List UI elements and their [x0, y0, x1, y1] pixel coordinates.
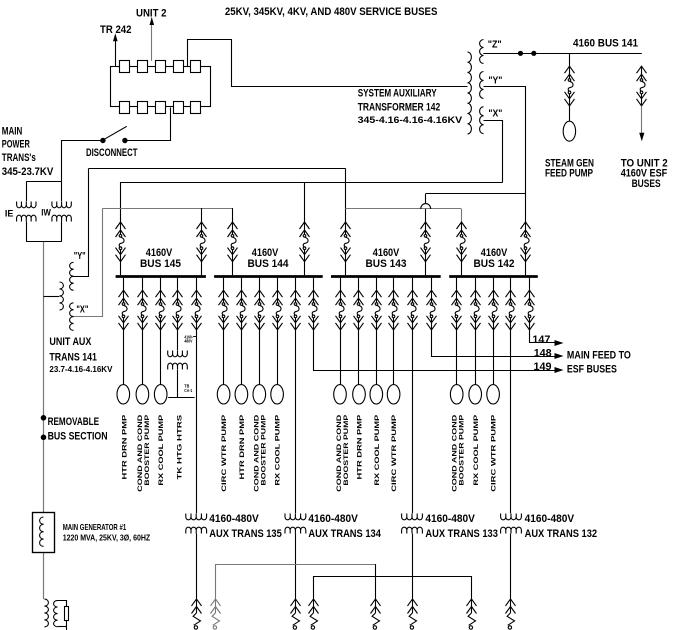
- svg-text:345-4.16-4.16-4.16KV: 345-4.16-4.16-4.16KV: [358, 115, 463, 125]
- wire breaker to bus at x=304.4: [304, 262, 306, 276]
- wire 142 X lead riser: [484, 121, 503, 183]
- svg-text:147: 147: [532, 334, 550, 346]
- svg-text:HTR DRN PMP: HTR DRN PMP: [122, 414, 129, 480]
- wire breaker to bus at x=232.8: [232, 262, 234, 276]
- arrowhead to unit 2 ESF buses: [639, 133, 644, 142]
- svg-text:BUS SECTION: BUS SECTION: [48, 431, 108, 443]
- wire breaker to bus at x=525.9: [525, 262, 527, 276]
- unit aux trans 141 primary winding: [60, 282, 64, 310]
- junction dot bus141 b: [531, 51, 536, 56]
- svg-text:COND AND COND: COND AND COND: [137, 414, 144, 491]
- 480V tie line B: [314, 577, 472, 599]
- breaker 480V at x=196.2: [192, 599, 202, 629]
- wire 148 line: [432, 330, 555, 357]
- svg-text:DISCONNECT: DISCONNECT: [86, 147, 138, 159]
- breaker bus144 feeder 5: [291, 290, 301, 330]
- neutral grounding trans secondary: [54, 600, 58, 626]
- svg-text:RX COOL PUMP: RX COOL PUMP: [158, 414, 165, 486]
- breaker incoming bus142 left: [457, 222, 467, 262]
- riser bus145 left breaker: [120, 182, 122, 222]
- arrowhead 149: [555, 367, 564, 373]
- wire to unit 2 ESF buses: [641, 106, 643, 135]
- wire to unit aux trans 141 primary: [44, 296, 60, 298]
- wire bus142 feeder 3 stub: [493, 278, 495, 291]
- wire to motor 4: [223, 330, 225, 385]
- wire primary tie 1E-1W: [26, 181, 62, 183]
- motor pump 8: [334, 385, 347, 404]
- wire main generator 25kV lead: [43, 242, 45, 599]
- wire bus143 feeder 1 stub: [340, 278, 342, 291]
- breaker bus144 feeder 3: [255, 290, 265, 330]
- wire breaker to bus at x=425.7: [425, 262, 427, 276]
- motor pump 11: [387, 385, 400, 404]
- svg-text:TRANS 141: TRANS 141: [49, 352, 97, 364]
- wire to motor 2: [142, 330, 144, 385]
- wire 141 Y lead riser: [74, 169, 89, 277]
- crossover hop: [421, 204, 431, 209]
- riser bus143 left breaker: [345, 168, 347, 222]
- bus 4160V BUS 144: [214, 275, 323, 278]
- wire breaker to bus at x=120.3: [120, 262, 122, 276]
- wire bus143 feeder 5 stub: [412, 278, 414, 291]
- breaker incoming bus143 right: [421, 222, 431, 262]
- svg-text:IE: IE: [5, 209, 14, 219]
- svg-text:BOOSTER PUMP: BOOSTER PUMP: [458, 414, 465, 486]
- motor pump 4: [217, 385, 230, 404]
- breaker incoming bus142 right: [521, 222, 531, 262]
- switchyard breaker square bottom 5: [191, 102, 201, 114]
- aux trans 133 primary winding: [402, 514, 423, 520]
- system aux trans 142 primary winding: [468, 52, 472, 134]
- wire 1W secondary lead: [61, 222, 63, 242]
- wire bus143 feeder 3 stub: [376, 278, 378, 291]
- removable bus section node upper: [41, 415, 47, 421]
- wire 1E secondary lead: [26, 222, 28, 242]
- feed line to bus142 left: [345, 208, 461, 210]
- svg-text:MAIN FEED TO: MAIN FEED TO: [567, 349, 631, 361]
- wire bus145 feeder 2 stub: [142, 278, 144, 291]
- riser bus144 left breaker: [232, 208, 234, 222]
- svg-text:BUS 144: BUS 144: [248, 258, 290, 270]
- wire aux trans 132 secondary down: [510, 534, 512, 599]
- breaker bus142 feeder 3: [489, 290, 499, 330]
- wire bus143 feeder 6 stub: [431, 278, 433, 291]
- wire bus142 feeder 5 stub: [529, 278, 531, 291]
- wire switchyard to disconnect: [128, 108, 171, 141]
- tick to feeder: [193, 336, 196, 338]
- svg-text:4160-480V: 4160-480V: [308, 513, 358, 525]
- aux trans 134 secondary winding: [285, 527, 306, 533]
- unit aux trans 141 X winding: [70, 303, 74, 331]
- disconnect blade: [104, 126, 127, 139]
- breaker bus143 feeder 1: [336, 290, 346, 330]
- wire below resistor: [66, 620, 68, 630]
- riser bus144 right breaker: [304, 182, 306, 222]
- transformer 1W secondary winding: [52, 215, 71, 221]
- feed line from 141 Y: [89, 168, 346, 170]
- svg-text:25KV, 345KV, 4KV, AND 480V SER: 25KV, 345KV, 4KV, AND 480V SERVICE BUSES: [225, 6, 438, 18]
- breaker bus142 feeder 2: [471, 290, 481, 330]
- svg-text:4160V: 4160V: [146, 247, 173, 259]
- breaker 480V at x=375.9: [371, 599, 381, 629]
- wire to motor 9: [358, 330, 360, 385]
- wire to motor 7: [277, 330, 279, 385]
- wire to motor 13: [475, 330, 477, 385]
- breaker 480V at x=295.4: [291, 599, 301, 629]
- svg-text:BUS 143: BUS 143: [366, 258, 407, 270]
- breaker steam gen feed pump: [565, 66, 575, 106]
- svg-text:"X": "X": [488, 109, 502, 120]
- svg-text:HTR DRN PMP: HTR DRN PMP: [357, 414, 364, 480]
- wire 147 line: [530, 330, 555, 343]
- svg-text:4160-480V: 4160-480V: [525, 513, 575, 525]
- svg-text:COND AND COND: COND AND COND: [254, 414, 261, 491]
- breaker bus143 feeder 5: [408, 290, 418, 330]
- breaker bus143 feeder 4: [389, 290, 399, 330]
- wire bus142 feeder 2 stub: [475, 278, 477, 291]
- wire long feeder to aux trans at x=511.0: [510, 330, 512, 513]
- wire grounding trans to resistor: [58, 601, 67, 607]
- switchyard breaker square bottom 4: [174, 102, 184, 114]
- riser bus143 right upper: [425, 194, 427, 204]
- breaker 480V at x=412.0: [408, 599, 418, 629]
- switchyard breaker square top 1: [120, 61, 130, 73]
- wire to motor 1: [123, 330, 125, 385]
- motor pump 13: [469, 385, 482, 404]
- bus 4160V BUS 143: [331, 275, 441, 278]
- svg-text:149: 149: [534, 361, 552, 373]
- breaker bus143 feeder 2: [354, 290, 364, 330]
- svg-text:345-23.7KV: 345-23.7KV: [2, 166, 54, 178]
- svg-text:23.7-4.16-4.16KV: 23.7-4.16-4.16KV: [49, 364, 112, 374]
- wire bus143 feeder 4 stub: [393, 278, 395, 291]
- wire to motor 12: [456, 330, 458, 385]
- unit aux trans 141 Y winding: [70, 262, 74, 290]
- wire bus142 feeder 1 stub: [456, 278, 458, 291]
- feed line from 142 Y to bus143 right: [426, 193, 526, 195]
- breaker bus145 feeder 4: [173, 290, 183, 330]
- svg-text:ESF BUSES: ESF BUSES: [567, 364, 617, 376]
- breaker bus143 feeder 3: [372, 290, 382, 330]
- aux trans 133 secondary winding: [402, 527, 423, 533]
- wire to motor 11: [393, 330, 395, 385]
- svg-text:TRANS's: TRANS's: [2, 152, 36, 164]
- switchyard breaker square top 4: [174, 61, 184, 73]
- svg-text:RX COOL PUMP: RX COOL PUMP: [374, 414, 381, 486]
- wire bus143 feeder 2 stub: [358, 278, 360, 291]
- breaker bus144 feeder 4: [273, 290, 283, 330]
- svg-text:4160V: 4160V: [481, 247, 508, 259]
- svg-text:BOOSTER PUMP: BOOSTER PUMP: [343, 414, 350, 486]
- breaker 480V at x=215.5: [211, 599, 221, 629]
- svg-text:480V: 480V: [184, 339, 192, 344]
- breaker to unit 2 ESF: [637, 66, 647, 106]
- svg-text:COND AND COND: COND AND COND: [451, 414, 458, 491]
- wire to UNIT 2: [151, 18, 153, 61]
- main generator box: [33, 513, 55, 553]
- wire to steam gen pump breaker: [569, 53, 571, 66]
- TK HTG trans secondary winding: [168, 363, 188, 369]
- breaker incoming bus144 right: [300, 222, 310, 262]
- wire 4160 bus 141: [483, 53, 642, 55]
- svg-text:4160-480V: 4160-480V: [209, 513, 259, 525]
- 480V tie line A right drop: [375, 564, 377, 599]
- svg-text:CIRC WTR PUMP: CIRC WTR PUMP: [221, 414, 228, 492]
- wire bus144 feeder 4 stub: [277, 278, 279, 291]
- motor pump 10: [370, 385, 383, 404]
- TK HTG trans primary winding: [168, 351, 188, 357]
- wire grounding trans lower lead: [58, 626, 67, 628]
- switchyard breaker square bottom 1: [120, 102, 130, 114]
- svg-text:"Z": "Z": [488, 39, 502, 50]
- breaker bus142 feeder 5: [525, 290, 535, 330]
- svg-text:4160V: 4160V: [252, 247, 279, 259]
- 345kV switchyard ring bus box: [111, 67, 211, 107]
- switchyard breaker square bottom 2: [138, 102, 148, 114]
- wire aux trans 135 secondary down: [196, 534, 198, 599]
- svg-text:IW: IW: [41, 208, 51, 218]
- wire long feeder to aux trans at x=412.0: [412, 330, 414, 513]
- svg-text:HTR DRN PMP: HTR DRN PMP: [239, 414, 246, 480]
- wire to motor 3: [160, 330, 162, 385]
- breaker 480V at x=511.0: [506, 599, 516, 629]
- motor pump 3: [154, 385, 167, 404]
- wire to 1E primary: [26, 182, 28, 201]
- system aux trans 142 Y winding: [480, 72, 484, 99]
- svg-text:MAIN: MAIN: [2, 125, 23, 137]
- feed line from 141 X: [102, 208, 233, 210]
- wire bus145 feeder 3 stub: [160, 278, 162, 291]
- motor steam gen feed pump: [563, 121, 575, 141]
- motor pump 7: [271, 385, 284, 404]
- wire to TK HTG trans: [177, 330, 179, 350]
- svg-text:"X": "X": [76, 304, 88, 315]
- wire disconnect to main power transformers: [62, 141, 103, 182]
- aux trans 135 secondary winding: [186, 527, 207, 533]
- motor pump 12: [450, 385, 463, 404]
- aux trans 135 primary winding: [186, 514, 207, 520]
- motor pump 6: [253, 385, 266, 404]
- bus 4160V BUS 145: [116, 275, 206, 278]
- wire 142 Y lead to bus142 right breaker: [484, 87, 526, 223]
- svg-text:148: 148: [534, 347, 552, 359]
- main generator winding: [40, 517, 44, 546]
- svg-text:BUSES: BUSES: [632, 178, 661, 190]
- wire switchyard to system aux transformer 142: [188, 40, 468, 87]
- breaker incoming bus145 right: [197, 222, 207, 262]
- svg-text:CIRC WTR PUMP: CIRC WTR PUMP: [491, 414, 498, 492]
- svg-text:4160 BUS 141: 4160 BUS 141: [573, 38, 639, 50]
- wire bus145 feeder 1 stub: [123, 278, 125, 291]
- wire breaker to steam gen pump motor: [569, 106, 571, 121]
- arrowhead TR 242: [113, 33, 118, 41]
- wire bus144 feeder 6 stub: [313, 278, 315, 291]
- wire 149 line: [314, 330, 555, 371]
- breaker bus145 feeder 5: [192, 290, 202, 330]
- wire aux trans 134 secondary down: [295, 534, 297, 599]
- svg-text:AUX TRANS 134: AUX TRANS 134: [308, 528, 381, 540]
- breaker bus144 feeder 6: [309, 290, 319, 330]
- riser bus142 left breaker: [461, 209, 463, 222]
- wire to motor 5: [241, 330, 243, 385]
- disconnect right contact: [122, 138, 127, 143]
- svg-text:AUX TRANS 133: AUX TRANS 133: [425, 528, 498, 540]
- svg-text:BOOSTER PUMP: BOOSTER PUMP: [261, 414, 268, 486]
- breaker 480V at x=313.4: [309, 599, 319, 629]
- wire bus144 feeder 5 stub: [295, 278, 297, 291]
- switchyard breaker square top 3: [156, 61, 166, 73]
- wire bus142 feeder 4 stub: [510, 278, 512, 291]
- svg-text:4160V: 4160V: [373, 247, 400, 259]
- system aux trans 142 Z winding: [480, 40, 484, 64]
- disconnect left contact: [100, 138, 105, 143]
- wire bus145 feeder 4 stub: [177, 278, 179, 291]
- svg-text:BUS 142: BUS 142: [474, 258, 515, 270]
- transformer 1E primary winding: [17, 202, 36, 208]
- breaker 480V at x=471.1: [467, 599, 477, 629]
- breaker bus145 feeder 3: [156, 290, 166, 330]
- wire bus144 feeder 2 stub: [241, 278, 243, 291]
- breaker bus144 feeder 1: [219, 290, 229, 330]
- 480V tie line A: [216, 565, 376, 599]
- wire TK HTG trans secondary: [177, 370, 179, 398]
- wire to 1W primary: [61, 182, 63, 201]
- svg-text:POWER: POWER: [2, 138, 30, 150]
- wire 141 X lead riser: [74, 209, 103, 317]
- breaker bus145 feeder 1: [119, 290, 129, 330]
- svg-text:MAIN GENERATOR #1: MAIN GENERATOR #1: [63, 523, 127, 532]
- svg-text:AUX TRANS 132: AUX TRANS 132: [525, 528, 598, 540]
- wire to motor 8: [340, 330, 342, 385]
- breaker bus144 feeder 2: [237, 290, 247, 330]
- removable bus section node lower: [41, 435, 47, 441]
- svg-text:REMOVABLE: REMOVABLE: [48, 416, 100, 428]
- svg-text:CIRC WTR PUMP: CIRC WTR PUMP: [391, 414, 398, 492]
- switchyard breaker square top 5: [191, 61, 201, 73]
- breaker incoming bus145 left: [116, 222, 126, 262]
- wire long feeder to aux trans at x=196.2: [196, 330, 198, 513]
- svg-text:COND AND COND: COND AND COND: [336, 414, 343, 491]
- riser bus143 right lower: [425, 209, 427, 222]
- neutral grounding trans primary: [45, 599, 49, 627]
- svg-text:1220 MVA, 25KV, 3Ø, 60HZ: 1220 MVA, 25KV, 3Ø, 60HZ: [63, 534, 151, 543]
- wire to motor 6: [259, 330, 261, 385]
- wire bus144 feeder 1 stub: [223, 278, 225, 291]
- switchyard breaker square top 2: [138, 61, 148, 73]
- svg-text:"Y": "Y": [488, 75, 502, 86]
- svg-text:AUX TRANS 135: AUX TRANS 135: [209, 528, 282, 540]
- transformer 1E secondary winding: [17, 215, 36, 221]
- aux trans 132 secondary winding: [501, 527, 522, 533]
- aux trans 134 primary winding: [285, 514, 306, 520]
- svg-text:RX COOL PUMP: RX COOL PUMP: [473, 414, 480, 486]
- wire long feeder to aux trans at x=295.4: [295, 330, 297, 513]
- wire TK HTG to TB: [168, 397, 194, 399]
- junction dot bus141 a: [518, 51, 523, 56]
- aux trans 132 primary winding: [501, 514, 522, 520]
- wire breaker to bus at x=201.3: [201, 262, 203, 276]
- breaker bus142 feeder 4: [506, 290, 516, 330]
- breaker bus142 feeder 1: [452, 290, 462, 330]
- wire breaker to bus at x=345.4: [345, 262, 347, 276]
- bus 4160V BUS 142: [449, 275, 538, 278]
- svg-text:BUS 145: BUS 145: [140, 258, 182, 270]
- transformer 1W primary winding: [52, 202, 71, 208]
- svg-text:UNIT AUX: UNIT AUX: [49, 336, 91, 348]
- wire bus145 feeder 5 stub: [196, 278, 198, 291]
- wire aux trans 133 secondary down: [412, 534, 414, 599]
- grounding resistor: [65, 607, 69, 621]
- svg-text:FEED PUMP: FEED PUMP: [545, 168, 593, 180]
- wire to motor 14: [493, 330, 495, 385]
- svg-text:BOOSTER PUMP: BOOSTER PUMP: [144, 414, 151, 486]
- wire secondary tie bus: [26, 241, 61, 243]
- arrowhead 147: [555, 340, 564, 346]
- wire to TR 242: [115, 37, 117, 67]
- motor pump 5: [235, 385, 248, 404]
- feed line from 142 X: [120, 182, 502, 184]
- wire bus144 feeder 3 stub: [259, 278, 261, 291]
- svg-text:RX COOL PUMP: RX COOL PUMP: [275, 414, 282, 486]
- wire breaker to bus at x=461.5: [461, 262, 463, 276]
- svg-text:TK HTG HTRS: TK HTG HTRS: [177, 414, 184, 480]
- riser bus145 right breaker: [201, 208, 203, 222]
- breaker incoming bus143 left: [341, 222, 351, 262]
- svg-text:TRANSFORMER 142: TRANSFORMER 142: [358, 102, 441, 114]
- motor pump 1: [117, 385, 130, 404]
- svg-text:CA-1: CA-1: [184, 388, 192, 393]
- motor pump 14: [487, 385, 500, 404]
- system aux trans 142 X winding: [480, 107, 484, 134]
- svg-text:TR 242: TR 242: [100, 24, 132, 36]
- svg-text:"Y": "Y": [74, 251, 86, 262]
- motor pump 9: [353, 385, 366, 404]
- wire to motor 10: [376, 330, 378, 385]
- arrowhead UNIT 2: [150, 17, 155, 25]
- breaker bus143 feeder 6: [427, 290, 437, 330]
- svg-text:4160-480V: 4160-480V: [425, 513, 475, 525]
- breaker bus145 feeder 2: [138, 290, 148, 330]
- svg-text:SYSTEM AUXILIARY: SYSTEM AUXILIARY: [358, 88, 437, 100]
- motor pump 2: [136, 385, 149, 404]
- arrowhead 148: [555, 353, 564, 359]
- switchyard breaker square bottom 3: [156, 102, 166, 114]
- breaker incoming bus144 left: [228, 222, 238, 262]
